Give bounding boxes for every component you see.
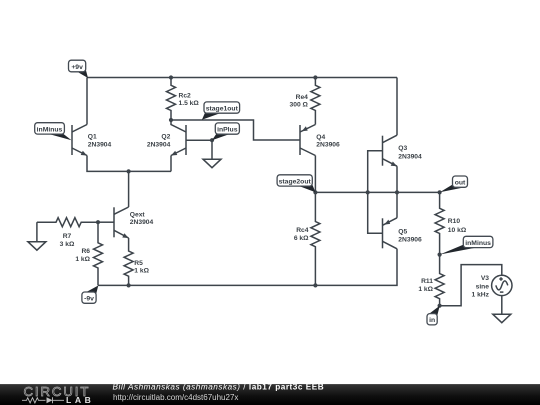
svg-text:Qext: Qext xyxy=(130,211,146,218)
node stage2out junction dot xyxy=(313,190,317,194)
wire Q5 collector to bottom rail xyxy=(98,249,397,286)
wire +9v drop to Q1 collector xyxy=(86,78,88,125)
footer logo CIRCUIT xyxy=(24,384,91,399)
footer logo LAB xyxy=(66,395,94,405)
svg-text:out: out xyxy=(455,180,466,187)
svg-text:-9v: -9v xyxy=(84,296,94,303)
node Rc2 top dot xyxy=(169,75,173,79)
svg-text:2N3906: 2N3906 xyxy=(316,141,340,148)
svg-text:6 kΩ: 6 kΩ xyxy=(294,235,309,242)
resistor R11 1k xyxy=(418,255,444,306)
svg-text:inMinus: inMinus xyxy=(37,126,63,133)
svg-text:LAB: LAB xyxy=(66,395,94,405)
resistor Rc4 6k xyxy=(294,192,320,285)
svg-text:Q4: Q4 xyxy=(316,134,325,141)
resistor R5 1k xyxy=(124,238,149,285)
wire Q2 emitter drop xyxy=(170,156,172,172)
node out junction dot xyxy=(438,190,442,194)
footer attribution line 1 xyxy=(113,382,325,391)
wire Q3 collector to top rail xyxy=(396,78,398,136)
transistor Q4 2N3906 xyxy=(300,125,340,156)
node inPlus junction dot xyxy=(210,138,214,142)
svg-text:300 Ω: 300 Ω xyxy=(290,101,309,108)
svg-text:2N3906: 2N3906 xyxy=(398,237,422,244)
node stage1out xyxy=(202,102,240,120)
svg-text:Rc4: Rc4 xyxy=(296,227,309,234)
wire Qext base xyxy=(98,221,114,223)
svg-text:R6: R6 xyxy=(81,248,90,255)
svg-text:1 kΩ: 1 kΩ xyxy=(75,256,90,263)
svg-text:+9v: +9v xyxy=(71,64,83,71)
node -9v xyxy=(82,286,98,304)
node stage2out xyxy=(277,175,315,193)
footer bar xyxy=(0,384,540,405)
transistor Qext 2N3904 xyxy=(114,207,154,238)
svg-text:10 kΩ: 10 kΩ xyxy=(448,227,467,234)
svg-text:2N3904: 2N3904 xyxy=(147,141,171,148)
svg-text:2N3904: 2N3904 xyxy=(130,219,154,226)
node in xyxy=(427,306,440,325)
resistor R10 10k xyxy=(435,192,467,254)
node inMinus (left) xyxy=(35,123,72,141)
ground below V3 xyxy=(493,296,511,323)
wire stage1out to Q4 base xyxy=(171,120,300,140)
svg-text:1 kΩ: 1 kΩ xyxy=(134,267,149,274)
footer attribution line 2 xyxy=(113,393,238,402)
svg-text:R7: R7 xyxy=(63,233,72,240)
wire base link Q3-Q5 xyxy=(368,151,383,234)
svg-text:Rc2: Rc2 xyxy=(179,92,192,99)
node emitter out dot xyxy=(395,190,399,194)
svg-text:inPlus: inPlus xyxy=(217,127,238,134)
node inPlus xyxy=(212,123,239,140)
svg-text:stage1out: stage1out xyxy=(206,106,239,113)
svg-text:3 kΩ: 3 kΩ xyxy=(60,241,75,248)
node R5 bottom dot xyxy=(127,283,131,287)
wire top +9v rail xyxy=(87,77,397,79)
svg-text:stage2out: stage2out xyxy=(279,178,312,185)
transistor Q5 2N3906 xyxy=(383,218,423,249)
resistor Re4 300 xyxy=(290,78,320,125)
svg-text:R10: R10 xyxy=(448,218,461,225)
transistor Q1 2N3904 xyxy=(72,125,112,156)
footer logo wire resistor diode xyxy=(22,397,64,403)
resistor R7 3k xyxy=(37,218,98,248)
resistor R6 1k xyxy=(75,222,102,285)
svg-text:Re4: Re4 xyxy=(296,94,309,101)
svg-text:R11: R11 xyxy=(421,278,433,285)
node emitter junction dot xyxy=(127,169,131,173)
svg-text:V3: V3 xyxy=(481,275,489,282)
ground at inPlus xyxy=(203,140,221,168)
svg-text:in: in xyxy=(429,317,435,324)
wire tail current drop to Qext xyxy=(128,171,130,207)
wire stage2out rail xyxy=(315,191,439,193)
svg-text:sine: sine xyxy=(476,283,490,290)
svg-text:1 kHz: 1 kHz xyxy=(472,292,490,299)
svg-text:Q5: Q5 xyxy=(398,228,407,235)
svg-text:Q3: Q3 xyxy=(398,145,407,152)
transistor Q3 2N3904 xyxy=(383,135,423,166)
wire Q4 collector to stage2out xyxy=(314,156,316,193)
node Re4 top dot xyxy=(313,75,317,79)
node inMinus (right) xyxy=(440,236,493,254)
wire Q1 emitter to rail xyxy=(87,156,171,172)
svg-text:Q1: Q1 xyxy=(88,134,97,141)
svg-text:1 kΩ: 1 kΩ xyxy=(418,286,433,293)
wire in node to V3 xyxy=(440,265,502,306)
svg-text:2N3904: 2N3904 xyxy=(88,141,112,148)
node inMinus junction dot xyxy=(438,253,442,257)
transistor Q2 2N3904 xyxy=(147,120,186,156)
svg-text:R5: R5 xyxy=(134,260,143,267)
node stage1out junction dot xyxy=(169,118,173,122)
node base link dot xyxy=(366,190,370,194)
wire Q2 base to ground xyxy=(186,139,212,141)
node out xyxy=(440,176,468,192)
node +9v xyxy=(69,60,89,78)
wire Q3/Q5 emitters to out xyxy=(396,166,398,218)
node Rc4 bottom dot xyxy=(313,283,317,287)
svg-text:Q2: Q2 xyxy=(161,134,170,141)
svg-text:2N3904: 2N3904 xyxy=(398,153,422,160)
svg-text:1.5 kΩ: 1.5 kΩ xyxy=(179,100,200,107)
node R7/R6/Qext base dot xyxy=(96,220,100,224)
ground at R7 xyxy=(28,222,46,250)
svg-text:Bill Ashmanskas (ashmanskas) /: Bill Ashmanskas (ashmanskas) / lab17 par… xyxy=(113,382,325,391)
svg-text:http://circuitlab.com/c4dst67u: http://circuitlab.com/c4dst67uhu27x xyxy=(113,393,238,402)
node in junction dot xyxy=(438,304,442,308)
voltage source V3 sine 1kHz xyxy=(472,275,512,298)
svg-text:inMinus: inMinus xyxy=(465,240,491,247)
resistor Rc2 1.5k xyxy=(167,78,200,121)
